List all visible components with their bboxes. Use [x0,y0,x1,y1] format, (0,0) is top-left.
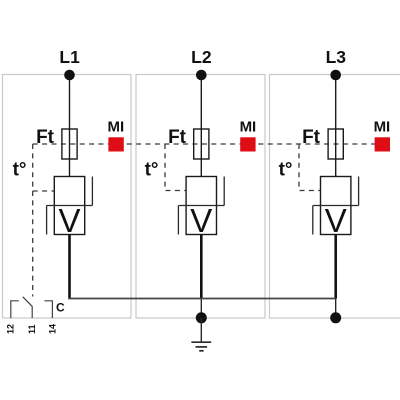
t-sensor dashed branch to varistor 1 [33,190,55,192]
svg-text:12: 12 [6,324,16,334]
varistor V2 body [186,177,216,235]
varistor V3 plug frame [313,177,359,235]
svg-text:V: V [325,202,347,239]
svg-text:t°: t° [13,160,27,181]
svg-text:MI: MI [107,119,124,136]
wire L3 to fuse [335,80,337,177]
t-sensor dashed line phase 2 [165,144,186,191]
PE bus wire [68,298,336,300]
svg-text:11: 11 [27,324,37,334]
svg-text:t°: t° [145,160,159,181]
panel box 1 (module L1) [3,75,132,319]
MI square 1 [108,137,123,151]
earth node phase 3 [330,312,341,323]
wire varistor 1 to PE bus [68,235,71,299]
panel box 3 (module L3) [270,75,400,319]
earth node phase 2 [196,312,207,323]
varistor V3 body [321,177,351,235]
node L1 [64,70,75,81]
svg-text:L2: L2 [191,47,212,67]
wire PE bus to earth node 2 [200,299,202,319]
fuse Ft2 [194,129,209,159]
svg-text:MI: MI [374,119,391,136]
fuse Ft3 [328,129,343,159]
svg-text:MI: MI [240,119,257,136]
wire PE bus to earth node 3 [335,299,337,319]
t-sensor dashed line phase 3 [299,144,321,191]
remote contact terminal 12 [11,301,19,318]
panel box 2 (module L2) [136,75,265,319]
wire varistor 2 to PE bus [200,235,203,299]
fuse Ft1 [62,129,77,159]
wire L2 to fuse [200,80,202,177]
wire node to ground [200,318,202,342]
wire varistor 3 to PE bus [334,235,337,299]
svg-text:V: V [58,202,80,239]
svg-text:L1: L1 [59,47,80,67]
varistor V2 plug frame [178,177,224,235]
varistor V1 plug frame [47,177,93,235]
MI square 3 [375,137,390,151]
svg-text:L3: L3 [326,47,347,67]
remote contact terminal 14 [44,301,52,318]
svg-text:Ft: Ft [302,127,321,148]
remote contact common 11 with blade [23,297,32,318]
MI square 2 [240,137,255,151]
varistor V1 body [54,177,84,235]
MI signal dashed line (horizontal) [33,143,389,145]
svg-text:t°: t° [279,160,293,181]
t-sensor dashed line phase 1 [32,144,34,297]
node L2 [196,70,207,81]
svg-text:14: 14 [47,324,57,334]
svg-text:V: V [190,202,212,239]
svg-text:Ft: Ft [36,127,55,148]
node L3 [330,70,341,81]
svg-text:C: C [56,301,65,315]
wire L1 to fuse [69,80,71,177]
svg-text:Ft: Ft [168,127,187,148]
ground symbol [191,342,211,351]
